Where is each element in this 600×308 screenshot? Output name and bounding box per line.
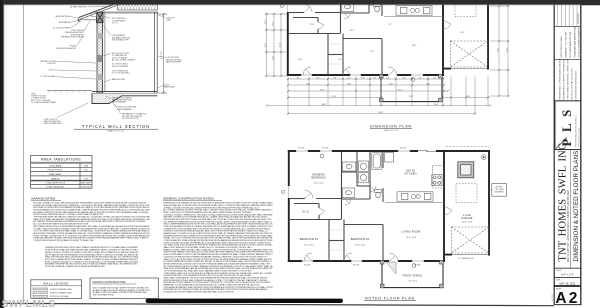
svg-text:2020 SH: 2020 SH [322,148,329,150]
svg-text:W/ 1x4 PT FURRING: W/ 1x4 PT FURRING [112,66,129,68]
svg-text:7'-0 x 20'-4: 7'-0 x 20'-4 [408,280,417,282]
porch corner posts [379,74,383,78]
svg-text:10'-0": 10'-0" [298,59,303,61]
ceiling insulation batt [118,3,158,10]
svg-text:12'-8": 12'-8" [466,96,471,98]
svg-text:5'-8": 5'-8" [333,77,337,79]
svg-text:FLORIDA LINTELS PRIOR TREATED: FLORIDA LINTELS PRIOR TREATED SHOWN PLAN… [164,291,235,294]
svg-text:29'-4": 29'-4" [398,89,403,91]
sheet inner border line (left margin) [22,5,24,305]
svg-text:DATE:: DATE: [556,278,561,281]
door swing arcs [304,186,452,262]
svg-text:3'-0": 3'-0" [338,59,342,61]
dimension plan dimension lines [265,6,510,115]
a/c pad box [492,184,507,197]
svg-text:10'-8 x 10'-0: 10'-8 x 10'-0 [355,244,365,246]
svg-text:CONT CONC FTG: CONT CONC FTG [44,119,58,121]
svg-text:OF A FL LICENSED ENGINEER: OF A FL LICENSED ENGINEER [578,27,581,57]
svg-text:W.I.C.: W.I.C. [303,210,311,213]
svg-text:STRUCTURAL PLAN REVIEW + INSPE: STRUCTURAL PLAN REVIEW + INSPECTIONS [567,58,570,100]
smoke detector circles [280,0,485,81]
svg-text:CONC SILL: CONC SILL [47,63,56,65]
svg-text:INTERIOR FRAMED WALL: INTERIOR FRAMED WALL [50,291,72,294]
floor slab line [92,91,158,93]
window openings [287,0,487,76]
svg-text:ALUM FASCIA: ALUM FASCIA [59,21,71,24]
svg-text:31'-0": 31'-0" [332,96,337,98]
svg-text:13'-0": 13'-0" [412,45,417,47]
svg-text:5'-4": 5'-4" [402,77,406,79]
svg-text:6'-4": 6'-4" [316,77,320,79]
front door opening [389,260,398,262]
cmu wall column with hatch [97,13,103,94]
svg-text:INTERIOR BEARING WALL: INTERIOR BEARING WALL [50,288,73,291]
noted floor plan drawing [281,150,490,288]
svg-text:GARAGE NOTES:: GARAGE NOTES: [31,197,56,201]
svg-text:1/2" OD ROOF VENTS: 1/2" OD ROOF VENTS [53,28,71,30]
svg-text:THE PSI STRAPS WORK L: THE PSI STRAPS WORK L [93,294,116,297]
svg-text:NOTIFY BE OF AND ALL DIMENSION: NOTIFY BE OF AND ALL DIMENSIONS FLORIDA … [45,265,106,268]
closet shelves dashes [330,43,341,45]
svg-text:14'-0": 14'-0" [347,83,352,85]
scanner dark band top [0,0,600,5]
attic access dashed [455,0,476,17]
exterior walls [288,150,490,262]
svg-text:PLATE: PLATE [166,19,172,22]
svg-text:4000 E. 13TH ST. LEHIGH ACRES,: 4000 E. 13TH ST. LEHIGH ACRES, FL 33936 … [567,189,570,262]
smoke detector circles [281,154,486,267]
front door opening [388,74,397,76]
garage door opening [451,67,487,69]
svg-text:6'-8": 6'-8" [370,51,374,53]
svg-text:BEDROOM #3: BEDROOM #3 [351,238,370,241]
svg-text:AREA TABULATIONS: AREA TABULATIONS [41,158,81,162]
svg-text:38'-0": 38'-0" [322,104,327,106]
svg-text:REVISIONS: REVISIONS [578,12,580,24]
svg-text:25'-4": 25'-4" [279,42,281,47]
svg-text:SIGNATURE AND RAISED SEAL: SIGNATURE AND RAISED SEAL [574,26,577,58]
svg-text:A/C PAD: A/C PAD [496,185,503,188]
svg-text:VAPOR BARRIER: VAPOR BARRIER [118,108,133,111]
porch corner posts [380,260,384,264]
soffit return [92,12,97,16]
monolithic footing [92,93,158,103]
svg-text:4'-8": 4'-8" [361,77,365,79]
scanner dark strip left [0,0,4,308]
typical wall section detail [47,0,167,104]
svg-text:12'-0": 12'-0" [460,32,465,34]
svg-text:1108 SQFT: 1108 SQFT [81,187,92,189]
svg-text:16" OC: 16" OC [112,23,118,25]
services text block [554,100,581,102]
svg-text:12'-0 x 13'-4: 12'-0 x 13'-4 [314,183,324,185]
svg-text:STUCCO: STUCCO [49,70,57,72]
svg-text:13'-4": 13'-4" [306,83,311,85]
svg-text:10'-8": 10'-8" [426,83,431,85]
svg-text:TOTAL UNDER ROOF: TOTAL UNDER ROOF [45,182,66,185]
fascia / drip edge [77,18,80,22]
svg-text:A2-1021: A2-1021 [551,294,554,301]
svg-text:3050 SH: 3050 SH [304,264,311,266]
svg-text:22'-8": 22'-8" [320,89,325,91]
interior partitions [289,152,383,261]
svg-text:13'-4": 13'-4" [272,55,274,60]
svg-text:11'-4 x 10'-0: 11'-4 x 10'-0 [304,244,314,246]
svg-text:GENERAL CONSTRUCTION NOTES:: GENERAL CONSTRUCTION NOTES: [163,197,214,201]
svg-text:3050 SH: 3050 SH [353,264,360,266]
lintel block mid-wall [97,55,103,62]
concrete tie beam (dark) [97,12,103,23]
door swing arcs [303,0,451,76]
ceiling line [102,11,158,13]
svg-text:LEHIGH ACRES FLORIDA 33936: LEHIGH ACRES FLORIDA 33936 [575,71,578,99]
svg-text:95% MOD PROCTOR: 95% MOD PROCTOR [122,118,139,120]
svg-text:5'-2": 5'-2" [388,24,392,26]
svg-text:5'-4": 5'-4" [418,77,422,79]
svg-text:ALL CELL DOWEL CORNERS: ALL CELL DOWEL CORNERS [112,58,136,61]
svg-text:REAR LANAI: REAR LANAI [49,173,61,176]
svg-text:1/4" = 1'-0": 1/4" = 1'-0" [561,272,574,276]
wall legend box [31,280,82,299]
front porch [382,262,443,288]
svg-text:PROFESSIONAL LAND SOLUTIONS LL: PROFESSIONAL LAND SOLUTIONS LLC [575,114,578,147]
bath fixtures [342,153,382,198]
window openings [288,150,488,262]
garage door opening [452,253,488,255]
closet shelves dashes [331,229,342,231]
svg-text:1543 SQFT: 1543 SQFT [81,183,92,185]
svg-text:PH 239-555-0100 FAX 239-555-0: PH 239-555-0100 FAX 239-555-0101 [571,68,574,99]
svg-text:11'-4": 11'-4" [310,24,315,26]
svg-text:SEE FTG SCHED FOR: SEE FTG SCHED FOR [44,121,61,123]
vertical dim line right (8-0 clg) [158,13,167,94]
svg-text:14'-0": 14'-0" [389,83,394,85]
svg-text:SCALE:: SCALE: [556,269,563,272]
PLS engineering logo [555,101,581,150]
svg-text:12'-8": 12'-8" [272,21,274,26]
scale box [554,267,581,269]
svg-text:ENGINEERING & CONSTRUCTION SER: ENGINEERING & CONSTRUCTION SERVICES [564,58,566,100]
svg-text:LIVING AREA: LIVING AREA [49,164,62,167]
company / sheet title rotated text [554,149,581,151]
svg-text:3050 SH: 3050 SH [414,264,421,266]
svg-text:BOTT OF FTG TO BE MIN: BOTT OF FTG TO BE MIN [31,100,51,102]
svg-text:TOTAL UNDER AIR: TOTAL UNDER AIR [46,186,64,189]
svg-text:A2: A2 [555,290,579,307]
svg-text:10'-4": 10'-4" [265,19,267,24]
svg-text:DIMENSION & NOTED FLOOR PLANS: DIMENSION & NOTED FLOOR PLANS [573,151,580,262]
svg-text:13'-0 x 19'-8: 13'-0 x 19'-8 [406,237,416,239]
grade line left of wall [47,90,92,92]
svg-text:RESIDENTIAL & COMMERCIAL BLDG: RESIDENTIAL & COMMERCIAL BLDG DESIGN [559,58,562,99]
svg-text:SCALE: 1/4" = 1'-0": SCALE: 1/4" = 1'-0" [384,129,399,132]
approval box [554,59,581,61]
garage roof overhang dashed [446,145,489,147]
svg-text:3050 SH: 3050 SH [298,148,305,150]
svg-text:5'-2": 5'-2" [433,77,437,79]
svg-text:TYPICAL WALL SECTION: TYPICAL WALL SECTION [82,124,150,129]
roof slope lines [79,0,128,18]
garage door x-brace [451,227,488,253]
svg-text:FOR SIZE AND TYPE: FOR SIZE AND TYPE [112,39,129,42]
svg-text:DOWN FTG 8x16 W/: DOWN FTG 8x16 W/ [31,96,47,98]
garage door x-brace [450,41,487,67]
svg-text:14'-2": 14'-2" [350,30,355,32]
svg-text:FRONT PORCH: FRONT PORCH [403,275,423,278]
svg-text:8'-0" CLG: 8'-0" CLG [161,51,163,59]
svg-text:BEAM PLATE: BEAM PLATE [164,86,175,89]
svg-text:BASE MOLDING: BASE MOLDING [112,78,126,81]
svg-text:3'-8": 3'-8" [373,77,377,79]
svg-text:8" CONC BLK WALL: 8" CONC BLK WALL [40,75,56,78]
bath fixtures [341,0,381,12]
svg-text:NOTED FLOOR PLAN: NOTED FLOOR PLAN [365,296,415,300]
svg-text:SWFLMLS: SWFLMLS [2,298,56,308]
porch step hatch [386,262,396,274]
svg-text:GARAGE: GARAGE [461,217,473,220]
mason contractor box [90,278,158,299]
svg-text:12'-0 x 19'-8: 12'-0 x 19'-8 [462,221,472,223]
svg-text:4'-4": 4'-4" [347,77,351,79]
svg-text:APPROVED BY: DATE:: APPROVED BY: DATE: [560,35,563,57]
sheet bottom border line [4,303,554,305]
svg-text:16" OC ON CMU WALL: 16" OC ON CMU WALL [112,72,130,75]
svg-text:MASON CONTRACTOR:: MASON CONTRACTOR: [93,280,127,284]
kitchen fixtures [385,153,444,202]
garage notes text [34,201,151,242]
svg-text:GARAGE: GARAGE [51,177,60,180]
title block strip borders [553,4,555,305]
kitchen half wall / counter line [385,201,444,203]
svg-text:CONDITIONS 28 3000 NOTIFY AT A: CONDITIONS 28 3000 NOTIFY AT AND PSI VER… [34,239,95,242]
svg-text:46'-0": 46'-0" [379,112,384,114]
svg-text:SCALE: 1/2" = 1'-0": SCALE: 1/2" = 1'-0" [108,130,125,133]
kitchen half wall / counter line [384,15,443,17]
svg-text:NOT VALID WITHOUT THE: NOT VALID WITHOUT THE [569,31,572,57]
interior wall face (furring/drywall) [154,13,156,94]
front porch [381,76,442,102]
svg-text:ALUM DRIP EDGE: ALUM DRIP EDGE [56,15,71,18]
date box [554,276,581,278]
general construction notes text [164,202,274,294]
svg-text:EQUIPMENT: EQUIPMENT [494,192,504,194]
svg-text:MAY 26, 2021: MAY 26, 2021 [559,281,576,285]
sliding glass door rear [418,150,436,152]
sheet number box [554,285,581,287]
black redaction bar [146,299,344,303]
svg-text:AT RAKE TRIM ONLY: AT RAKE TRIM ONLY [70,5,87,8]
furring inner face lines [103,13,105,92]
svg-text:3050 SH: 3050 SH [400,148,407,150]
exterior walls [287,0,489,76]
svg-text:ROOFING INSTALLATION: ROOFING INSTALLATION [56,47,77,50]
svg-text:PER MANUF SPECIFICATION: PER MANUF SPECIFICATION [61,35,85,38]
svg-text:7'-0": 7'-0" [296,77,300,79]
kitchen fixtures [384,0,443,15]
svg-text:30'-0": 30'-0" [506,47,508,52]
garage notes indented paragraph [45,246,139,268]
dimension plan drawing [280,0,489,102]
svg-text:FRONT PORCH: FRONT PORCH [48,170,63,172]
attic access dashed [456,184,477,203]
svg-text:BEDROOM #2: BEDROOM #2 [300,238,319,241]
interior partitions [288,0,382,75]
svg-text:26'-0": 26'-0" [265,42,267,47]
svg-text:KITCHEN: KITCHEN [404,173,416,176]
svg-text:VAPOR BARRIER: VAPOR BARRIER [112,101,127,104]
wall section labels [31,5,182,125]
svg-text:BEDROOM: BEDROOM [311,177,325,180]
svg-text:LIVING ROOM: LIVING ROOM [402,231,421,234]
area tabulations table [31,155,92,188]
svg-text:WALL LEGEND: WALL LEGEND [43,282,69,286]
svg-text:26'-8": 26'-8" [497,47,499,52]
revision table (rotated rows) [554,4,581,26]
garage storage / utility [458,162,474,178]
svg-text:DRAWN BY: JLS CHK: TNT: DRAWN BY: JLS CHK: TNT [565,31,568,58]
svg-text:DIMENSION PLAN: DIMENSION PLAN [370,124,412,128]
svg-text:PARTITION FINISH: PARTITION FINISH [166,61,182,64]
svg-text:20'-4": 20'-4" [409,96,414,98]
svg-text:5'-0": 5'-0" [386,77,390,79]
svg-text:20'-4": 20'-4" [434,104,439,106]
